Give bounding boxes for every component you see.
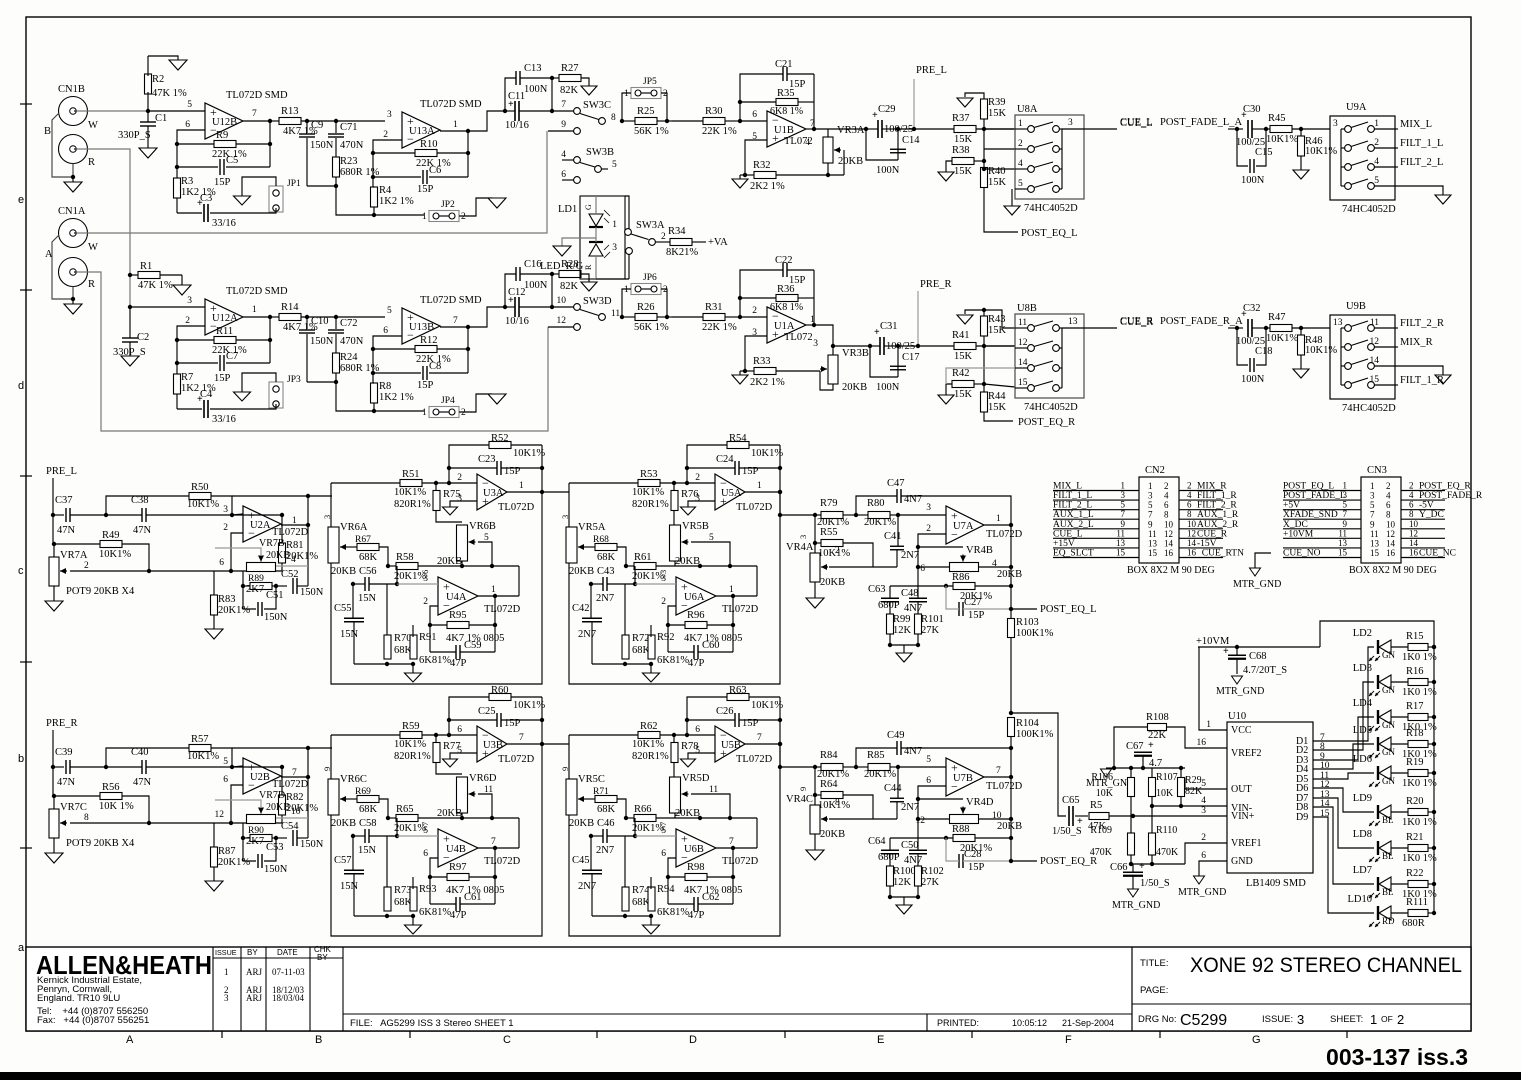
resistor R34 — [670, 239, 692, 246]
resistor R15 — [1408, 644, 1428, 651]
LED LD10 — [1377, 906, 1379, 920]
wire CN1B R down to row A — [76, 149, 130, 308]
wire C56 node to R58 — [634, 566, 636, 584]
wire to R37 — [898, 128, 954, 130]
svg-text:4: 4 — [805, 138, 810, 148]
wire section top line — [569, 734, 638, 736]
wire fb vertical — [1010, 525, 1012, 609]
svg-text:7: 7 — [729, 837, 734, 847]
ground cluster — [903, 897, 905, 905]
svg-text:R91: R91 — [419, 632, 437, 643]
op-amp U12B — [205, 103, 243, 139]
svg-text:2N7: 2N7 — [901, 802, 919, 813]
svg-text:4N7: 4N7 — [904, 603, 922, 614]
svg-text:1: 1 — [491, 585, 496, 595]
svg-text:68K: 68K — [359, 552, 378, 563]
feedback R63 — [727, 694, 749, 701]
svg-text:14: 14 — [1386, 538, 1396, 548]
svg-text:2: 2 — [1374, 138, 1379, 148]
svg-text:2: 2 — [1164, 481, 1169, 491]
wire fb right — [732, 847, 734, 904]
svg-text:R18: R18 — [1406, 728, 1424, 739]
ground R42 — [938, 395, 954, 404]
svg-text:C1: C1 — [155, 113, 167, 124]
resistor R3 — [174, 178, 181, 198]
wire jumper left — [622, 289, 631, 317]
resistor R57 — [189, 745, 211, 752]
svg-text:U12A: U12A — [212, 313, 238, 324]
wire out2 to C11 — [468, 111, 505, 131]
resistor R28 — [559, 271, 581, 278]
svg-text:R101: R101 — [921, 614, 944, 625]
svg-text:U5A: U5A — [721, 488, 742, 499]
op-amp U5B — [715, 726, 745, 762]
wire U4 out — [716, 847, 757, 849]
svg-text:MIX_R: MIX_R — [1400, 337, 1433, 348]
LED LD1 green — [589, 214, 603, 226]
svg-text:R64: R64 — [820, 779, 838, 790]
svg-text:20KB: 20KB — [569, 566, 594, 577]
svg-text:VREF2: VREF2 — [1231, 748, 1262, 759]
svg-text:ISSUE: ISSUE — [215, 948, 237, 957]
capacitor C49 — [896, 741, 898, 755]
svg-text:VR7B: VR7B — [259, 538, 285, 549]
svg-text:POST_EQ_R: POST_EQ_R — [1040, 856, 1097, 867]
op-amp U7B — [946, 758, 984, 796]
svg-text:VR4A: VR4A — [786, 542, 814, 553]
wire out to C29 — [814, 128, 866, 130]
svg-text:1: 1 — [422, 212, 427, 222]
svg-text:R84: R84 — [820, 750, 838, 761]
svg-text:20KB: 20KB — [997, 569, 1022, 580]
svg-text:4: 4 — [1187, 490, 1192, 500]
svg-text:150N: 150N — [310, 140, 334, 151]
svg-text:c: c — [18, 565, 24, 577]
svg-text:SW3A: SW3A — [636, 220, 665, 231]
svg-text:74HC4052D: 74HC4052D — [1342, 403, 1396, 414]
wire +10VM to LED bus — [1320, 621, 1434, 913]
svg-text:C7: C7 — [226, 351, 238, 362]
svg-text:VR6D: VR6D — [469, 773, 497, 784]
svg-text:+5V: +5V — [1283, 501, 1300, 511]
filter section box U5B — [569, 697, 780, 936]
resistor R77 — [433, 743, 440, 763]
svg-text:VR7A: VR7A — [60, 550, 88, 561]
wire wiper row — [829, 566, 873, 568]
svg-text:10K1%: 10K1% — [187, 751, 219, 762]
svg-text:1K0 1%: 1K0 1% — [1402, 778, 1437, 789]
svg-text:VR5A: VR5A — [578, 522, 606, 533]
wire R81 top node — [280, 765, 284, 769]
svg-text:12: 12 — [215, 810, 225, 820]
svg-text:4: 4 — [1409, 490, 1414, 500]
ground VR4C — [814, 834, 816, 850]
wire into U8 pin1 — [984, 345, 1015, 347]
svg-text:2: 2 — [223, 523, 228, 533]
capacitor C68 — [1228, 654, 1246, 656]
svg-text:C58: C58 — [359, 818, 377, 829]
ground U3 plus — [681, 507, 696, 515]
svg-text:FILT_2_R: FILT_2_R — [1400, 318, 1444, 329]
svg-text:BL: BL — [1382, 851, 1394, 861]
svg-text:C67: C67 — [1126, 741, 1144, 752]
wire out vertical — [307, 748, 309, 838]
svg-text:U4B: U4B — [446, 844, 466, 855]
switch U9A pole 2 — [1341, 147, 1345, 149]
ground MTR_GND rail — [1106, 767, 1114, 769]
svg-text:2N7: 2N7 — [596, 593, 614, 604]
svg-text:7: 7 — [453, 316, 458, 326]
svg-text:1: 1 — [757, 481, 762, 491]
svg-text:R8: R8 — [379, 381, 391, 392]
svg-text:C54: C54 — [281, 821, 299, 832]
svg-text:13: 13 — [1068, 317, 1078, 327]
svg-text:15P: 15P — [417, 184, 434, 195]
wire C63-C48 top — [890, 837, 918, 839]
resistor R26 — [620, 315, 624, 319]
svg-text:D9: D9 — [1296, 812, 1308, 823]
wire R4 bottom — [373, 403, 375, 411]
capacitor C63 — [881, 597, 899, 599]
pot VR7D — [247, 815, 276, 824]
svg-text:LD5: LD5 — [1353, 725, 1372, 736]
ground MTR_GND CN3 — [1250, 568, 1261, 576]
svg-text:C37: C37 — [55, 495, 73, 506]
resistor R107 — [1149, 778, 1156, 797]
svg-text:U6B: U6B — [684, 844, 704, 855]
LED LD8 — [1377, 841, 1379, 855]
capacitor C47 — [896, 489, 898, 503]
svg-text:PAGE:: PAGE: — [1140, 985, 1168, 996]
wire pot right — [979, 818, 1011, 820]
wire to ground — [1395, 186, 1443, 195]
svg-text:1: 1 — [612, 220, 617, 230]
svg-text:3: 3 — [798, 535, 808, 539]
svg-text:1: 1 — [1018, 119, 1023, 129]
svg-text:2: 2 — [1187, 481, 1192, 491]
svg-text:CUE_NC: CUE_NC — [1419, 548, 1456, 558]
svg-text:R61: R61 — [634, 552, 652, 563]
svg-text:10K1%: 10K1% — [394, 487, 426, 498]
resistor R31 — [703, 314, 725, 321]
svg-text:VIN+: VIN+ — [1231, 811, 1255, 822]
resistor R42 — [952, 381, 974, 388]
svg-text:820R1%: 820R1% — [394, 499, 431, 510]
resistor R27 — [559, 75, 581, 82]
svg-text:BL: BL — [1382, 887, 1394, 897]
ground CN1A — [72, 299, 74, 304]
filter section box U3A — [331, 445, 542, 684]
ground U6B — [650, 916, 652, 925]
svg-text:5: 5 — [1201, 779, 1206, 789]
wire VR6B bottom — [461, 813, 463, 818]
svg-text:BY: BY — [247, 948, 258, 957]
svg-text:AUX_2_R: AUX_2_R — [1197, 520, 1239, 530]
resistor R90 — [250, 835, 272, 842]
svg-text:4N7: 4N7 — [904, 746, 922, 757]
svg-text:C44: C44 — [884, 783, 902, 794]
op-amp U5A — [715, 474, 745, 510]
svg-text:1: 1 — [1121, 481, 1126, 491]
svg-text:11: 11 — [1116, 528, 1125, 538]
capacitor C16 — [515, 267, 517, 281]
svg-text:C43: C43 — [597, 566, 615, 577]
svg-text:JP6: JP6 — [643, 273, 657, 283]
wire L sections link — [542, 491, 569, 493]
capacitor C48 — [909, 597, 927, 599]
svg-text:R22: R22 — [1406, 868, 1424, 879]
wire feedback right — [813, 74, 815, 129]
svg-text:R37: R37 — [952, 113, 970, 124]
resistor R74 — [622, 887, 629, 911]
svg-text:R66: R66 — [634, 804, 652, 815]
switch U9B pole 12 — [1341, 346, 1345, 348]
wire pot right — [979, 566, 1011, 568]
wire R4 bottom — [373, 207, 375, 215]
net FILT_2_L — [1395, 166, 1398, 168]
svg-text:R69: R69 — [355, 787, 371, 797]
LED LD2 — [1377, 640, 1379, 654]
svg-text:330P_S: 330P_S — [118, 130, 151, 141]
wire cluster bottom — [889, 634, 891, 645]
svg-text:XONE 92 STEREO CHANNEL: XONE 92 STEREO CHANNEL — [1190, 954, 1462, 977]
wire GND pin — [1199, 861, 1227, 876]
svg-text:10K1%: 10K1% — [513, 700, 545, 711]
LED LD5 — [1377, 737, 1379, 751]
svg-text:R47: R47 — [1268, 312, 1286, 323]
svg-text:BOX 8X2 M 90 DEG: BOX 8X2 M 90 DEG — [1127, 565, 1215, 576]
svg-text:20KB: 20KB — [820, 829, 845, 840]
svg-text:VREF1: VREF1 — [1231, 838, 1262, 849]
svg-text:20KB: 20KB — [675, 556, 700, 567]
svg-text:07-11-03: 07-11-03 — [272, 967, 305, 977]
svg-text:C40: C40 — [131, 747, 149, 758]
svg-text:4: 4 — [1018, 159, 1023, 169]
svg-text:GN: GN — [1382, 720, 1395, 730]
svg-text:6K8 1%: 6K8 1% — [770, 302, 803, 313]
svg-text:470K: 470K — [1156, 847, 1179, 858]
svg-text:R73: R73 — [394, 885, 412, 896]
svg-text:15K: 15K — [988, 325, 1007, 336]
wire pot to out — [276, 817, 308, 819]
svg-text:R104: R104 — [1016, 718, 1040, 729]
wire SW3C pin9 — [548, 130, 574, 132]
feedback R60 — [489, 694, 511, 701]
net FILT_2_R — [1395, 327, 1398, 329]
svg-text:R36: R36 — [777, 284, 795, 295]
svg-text:7: 7 — [1343, 509, 1348, 519]
svg-text:14: 14 — [1018, 358, 1028, 368]
svg-text:TL072D: TL072D — [498, 502, 535, 513]
svg-text:68K: 68K — [597, 804, 616, 815]
svg-text:20KB: 20KB — [266, 550, 290, 561]
svg-text:15: 15 — [1116, 547, 1126, 557]
resistor R45 — [1270, 126, 1292, 133]
resistor R25 — [620, 119, 624, 123]
svg-text:20K1%: 20K1% — [864, 769, 896, 780]
svg-text:VCC: VCC — [1231, 725, 1252, 736]
svg-text:R99: R99 — [893, 614, 911, 625]
svg-text:20K1%: 20K1% — [864, 517, 896, 528]
resistor R58 — [396, 563, 418, 570]
ground R48 — [1300, 355, 1302, 369]
svg-text:LD7: LD7 — [1353, 865, 1372, 876]
svg-text:3: 3 — [695, 494, 700, 504]
svg-text:R65: R65 — [396, 804, 414, 815]
svg-text:C26: C26 — [716, 706, 734, 717]
svg-text:2: 2 — [461, 408, 466, 418]
svg-text:3: 3 — [457, 494, 462, 504]
svg-text:7: 7 — [252, 109, 257, 119]
svg-text:2: 2 — [1397, 1012, 1404, 1027]
svg-text:CUE_L: CUE_L — [1053, 529, 1083, 539]
svg-text:SW3D: SW3D — [583, 296, 612, 307]
svg-text:10: 10 — [1164, 519, 1174, 529]
wire D5 to LD6 — [1313, 773, 1374, 779]
svg-text:47P: 47P — [688, 910, 705, 921]
svg-text:R23: R23 — [340, 156, 358, 167]
svg-text:U9A: U9A — [1346, 102, 1367, 113]
wire plus input — [745, 336, 767, 371]
wire wiper VR7B — [215, 800, 261, 808]
svg-text:5: 5 — [1018, 179, 1023, 189]
capacitor C9 — [299, 133, 315, 135]
svg-text:TL072D: TL072D — [736, 754, 773, 765]
pot VR5D — [670, 777, 681, 813]
resistor R12 — [415, 346, 437, 353]
wire plus input gray — [635, 583, 676, 585]
svg-text:100N: 100N — [1241, 175, 1265, 186]
svg-text:R: R — [88, 157, 95, 168]
svg-text:1: 1 — [422, 408, 427, 418]
resistor R22 — [1408, 881, 1428, 888]
svg-text:1/50_S: 1/50_S — [1052, 826, 1082, 837]
svg-text:C66: C66 — [1110, 862, 1128, 873]
capacitor C6 — [422, 170, 424, 184]
svg-text:15P: 15P — [417, 380, 434, 391]
capacitor C32 — [1247, 319, 1249, 337]
wire VR6B bottom — [461, 561, 463, 566]
wire CN1B shield — [52, 113, 73, 177]
svg-text:12: 12 — [1409, 528, 1418, 538]
svg-text:14: 14 — [1187, 538, 1197, 548]
svg-text:U6A: U6A — [684, 592, 705, 603]
svg-text:8: 8 — [611, 113, 616, 123]
svg-text:C16: C16 — [524, 259, 542, 270]
wire out up — [756, 818, 758, 848]
svg-text:POST_FADE_L: POST_FADE_L — [1283, 491, 1346, 501]
connector CN3 — [1361, 477, 1401, 563]
wire LED mid to ground — [562, 238, 596, 246]
svg-text:R52: R52 — [491, 433, 509, 444]
wire fb right — [732, 595, 734, 652]
svg-text:10: 10 — [1409, 519, 1419, 529]
feedback R54 — [727, 442, 749, 449]
svg-text:TL072D: TL072D — [986, 781, 1023, 792]
wire C56 node to R58 — [396, 566, 398, 584]
wire POST_EQ — [1011, 860, 1037, 862]
svg-text:20KB: 20KB — [266, 802, 290, 813]
capacitor C56 — [364, 577, 366, 591]
svg-text:R55: R55 — [820, 527, 838, 538]
wire U7 out — [984, 524, 1011, 526]
net FILT_1_L — [1395, 147, 1398, 149]
svg-text:68K: 68K — [359, 804, 378, 815]
svg-text:100N: 100N — [876, 382, 900, 393]
LED LD1 box — [580, 196, 625, 279]
svg-text:680R: 680R — [1402, 918, 1425, 929]
svg-text:JP5: JP5 — [643, 77, 657, 87]
wire U3 minus — [449, 734, 477, 736]
svg-text:R45: R45 — [1268, 113, 1286, 124]
wire feedback left — [177, 130, 205, 213]
svg-text:2: 2 — [661, 232, 666, 242]
resistor R110 — [1149, 833, 1156, 855]
svg-text:10K1%: 10K1% — [632, 739, 664, 750]
svg-text:100K1%: 100K1% — [1016, 729, 1054, 740]
svg-text:LED_R/G: LED_R/G — [540, 261, 584, 272]
svg-text:R1: R1 — [140, 261, 152, 272]
wire R sections link — [542, 743, 569, 745]
svg-text:1K0 1%: 1K0 1% — [1402, 687, 1437, 698]
svg-text:3: 3 — [223, 505, 228, 515]
svg-text:5: 5 — [1148, 500, 1153, 510]
svg-text:Fax: +44 (0)8707 556251: Fax: +44 (0)8707 556251 — [37, 1015, 149, 1026]
svg-text:1: 1 — [252, 305, 257, 315]
svg-text:7: 7 — [1370, 510, 1375, 520]
svg-text:VR3B: VR3B — [842, 348, 869, 359]
svg-text:150N: 150N — [310, 336, 334, 347]
svg-text:1K2 1%: 1K2 1% — [379, 392, 414, 403]
ground JP2 — [488, 198, 506, 208]
capacitor C2 — [128, 305, 132, 309]
svg-text:47N: 47N — [57, 525, 76, 536]
capacitor C1 — [146, 109, 150, 113]
svg-text:R33: R33 — [753, 356, 771, 367]
capacitor C64 — [881, 849, 899, 851]
svg-text:2: 2 — [185, 316, 190, 326]
svg-text:MTR_GND: MTR_GND — [1178, 887, 1226, 898]
svg-text:-5V: -5V — [1419, 501, 1434, 511]
resistor R101 — [915, 614, 922, 634]
capacitor C27 — [958, 602, 960, 616]
capacitor C28 — [958, 854, 960, 868]
svg-text:PRE_R: PRE_R — [46, 718, 78, 729]
wire Rb to ground — [965, 310, 984, 316]
wire wiper row — [70, 822, 282, 824]
svg-text:1K0 1%: 1K0 1% — [1402, 853, 1437, 864]
wire pin2 — [984, 148, 1015, 150]
svg-text:2N7: 2N7 — [578, 629, 596, 640]
wire R91 top — [412, 625, 414, 637]
resistor R98 — [685, 874, 707, 881]
svg-text:15P: 15P — [742, 466, 759, 477]
svg-text:18/03/04: 18/03/04 — [272, 993, 305, 1003]
svg-text:R25: R25 — [637, 106, 655, 117]
wire U4 out — [716, 595, 757, 597]
wire feedback right — [269, 317, 271, 363]
svg-text:2: 2 — [926, 524, 931, 534]
svg-text:C38: C38 — [131, 495, 149, 506]
svg-text:R19: R19 — [1406, 757, 1424, 768]
svg-text:R103: R103 — [1016, 617, 1039, 628]
svg-text:16: 16 — [1386, 548, 1396, 558]
svg-text:R53: R53 — [640, 469, 658, 480]
svg-text:C13: C13 — [524, 63, 542, 74]
svg-text:74HC4052D: 74HC4052D — [1024, 402, 1078, 413]
svg-text:12: 12 — [1187, 528, 1196, 538]
ground R27 — [581, 86, 597, 95]
